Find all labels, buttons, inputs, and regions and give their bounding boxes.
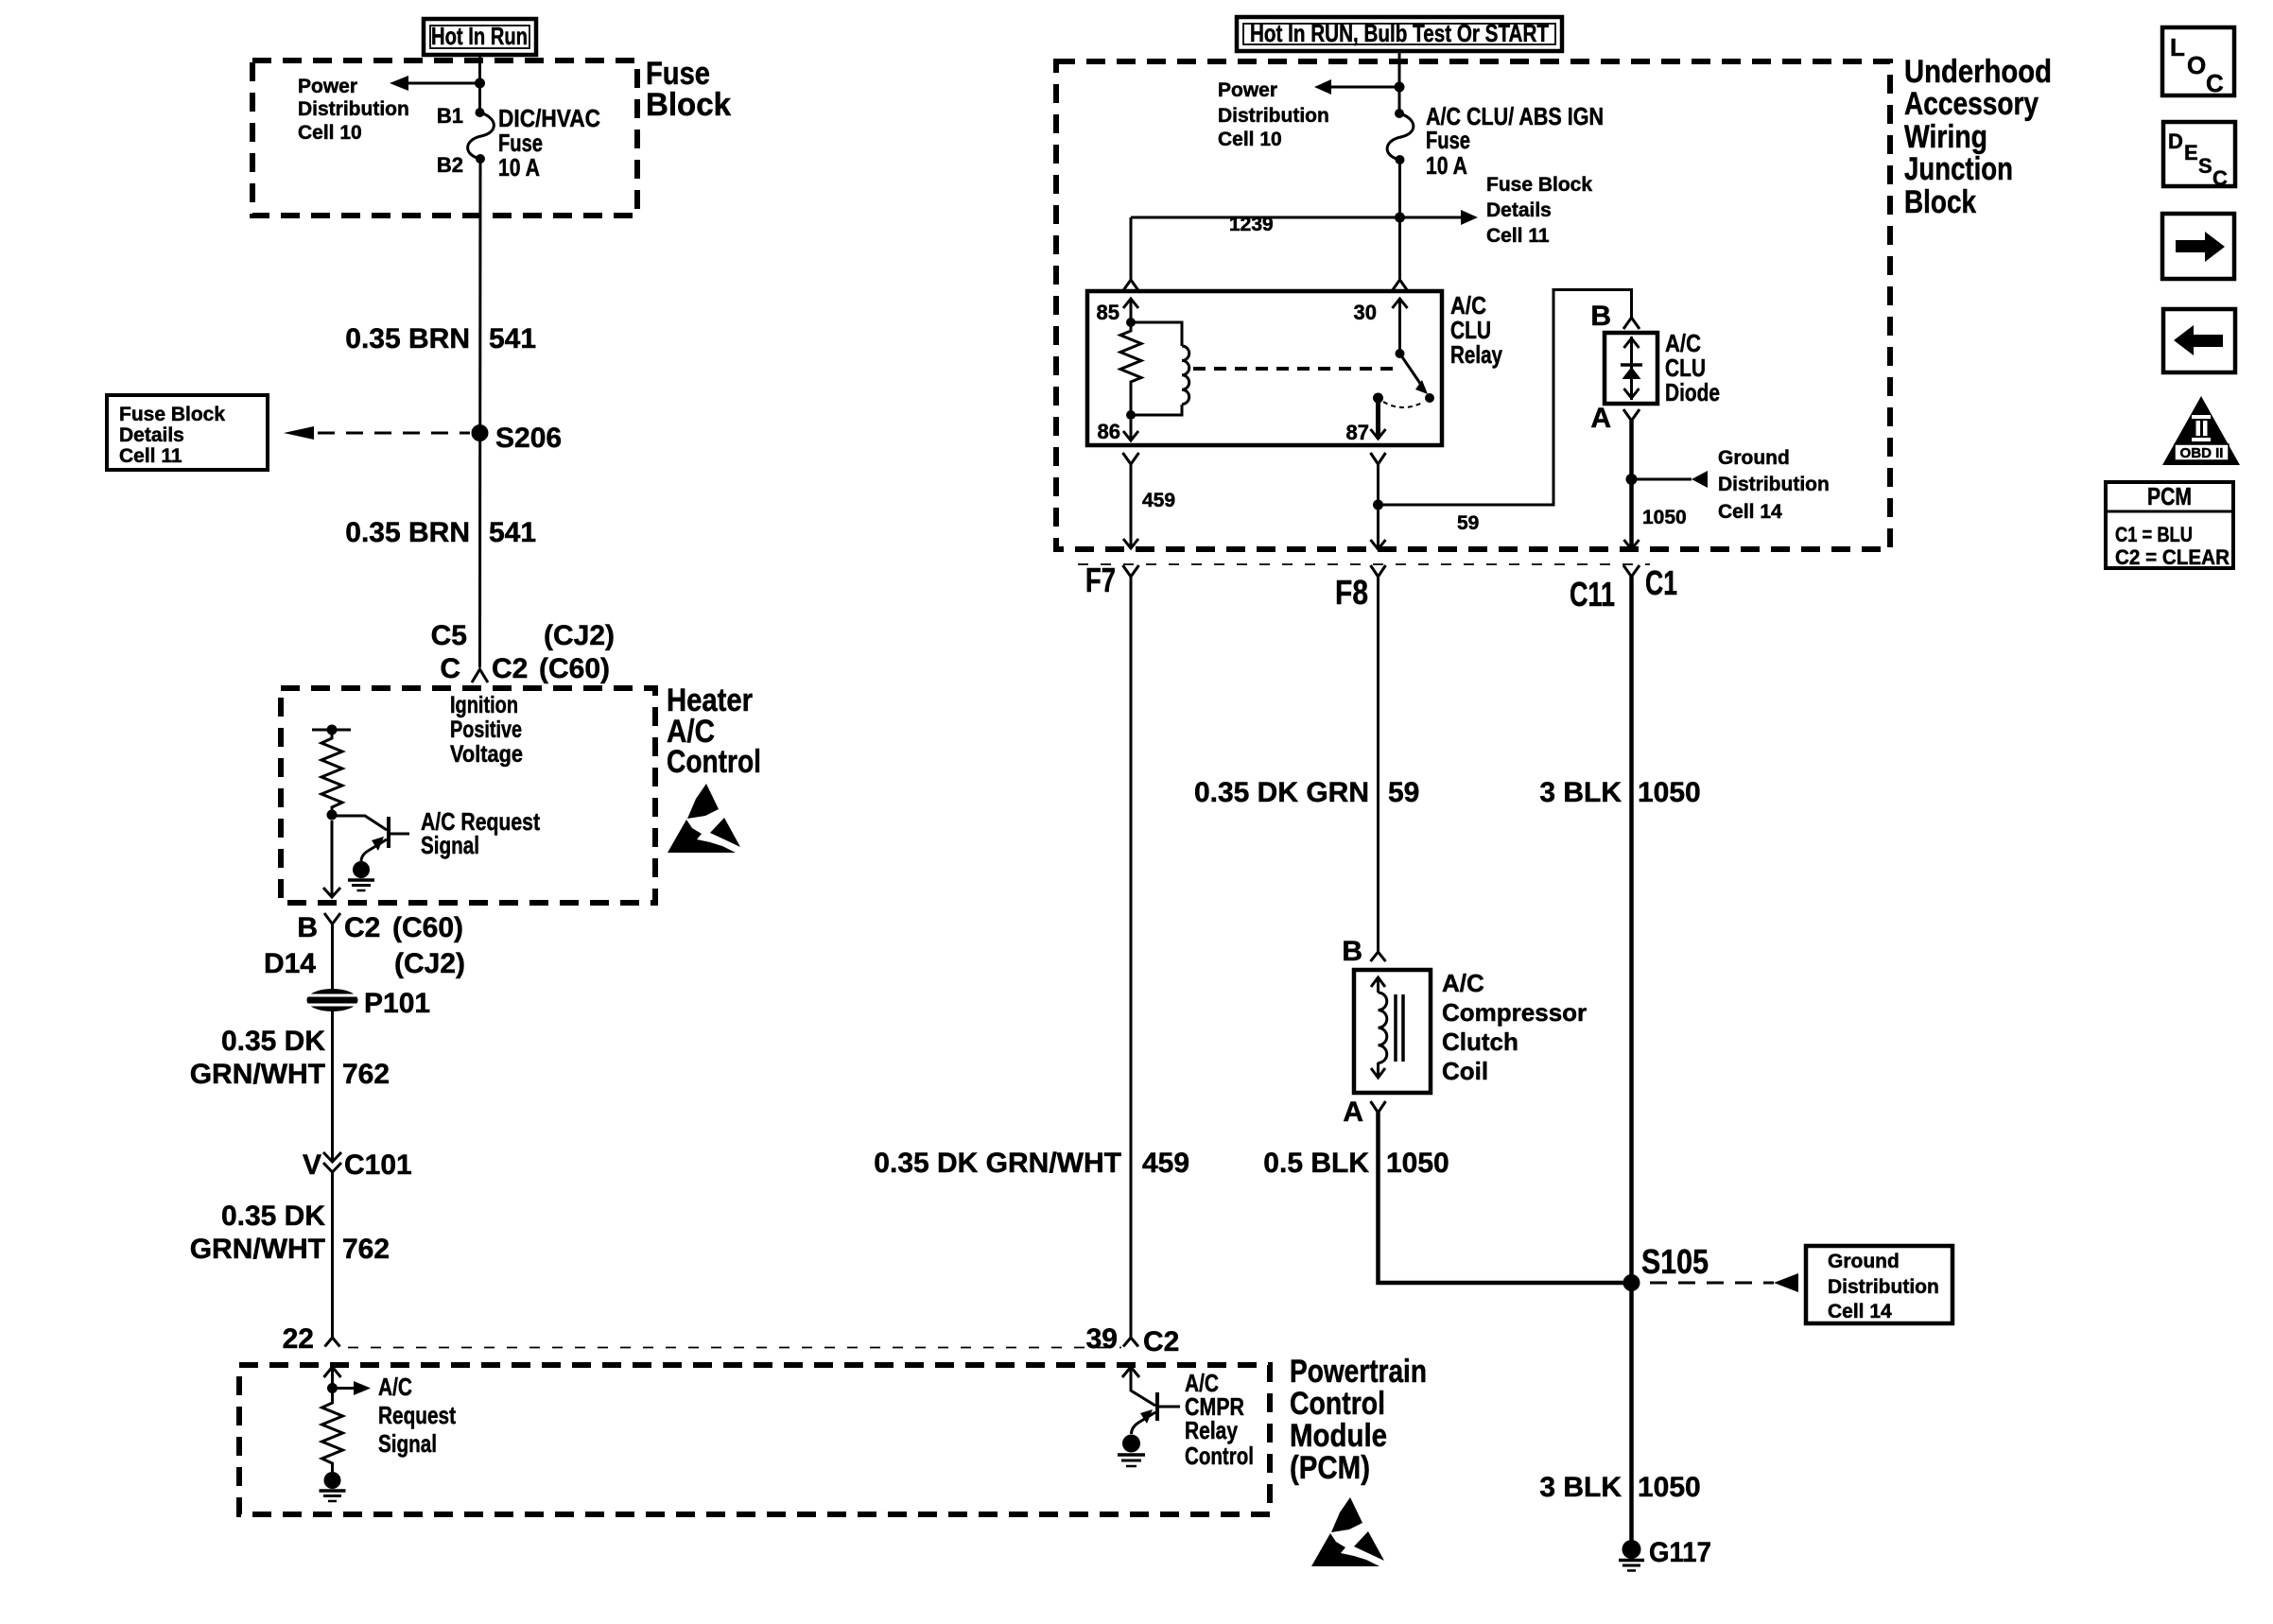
connector C11/C1 — [1623, 565, 1640, 577]
wire 0.5 BLK to splice S105 — [1379, 1113, 1632, 1283]
wire to connector B with arrow — [323, 821, 340, 897]
relay coil winding — [1131, 322, 1189, 415]
svg-text:Accessory: Accessory — [1904, 86, 2039, 122]
svg-text:762: 762 — [342, 1059, 390, 1090]
wire F8 to clutch coil — [1377, 577, 1379, 952]
svg-text:C: C — [2212, 166, 2228, 190]
wire arrow to power distribution right — [1314, 79, 1399, 95]
svg-text:Fuse Block: Fuse Block — [119, 404, 225, 425]
svg-text:3 BLK: 3 BLK — [1539, 1472, 1622, 1503]
wire arrow to power distribution — [390, 76, 480, 91]
svg-text:Fuse: Fuse — [1426, 126, 1470, 154]
ignition positive voltage label — [450, 692, 523, 768]
svg-text:S206: S206 — [495, 423, 562, 454]
svg-text:PCM: PCM — [2147, 482, 2192, 510]
fuse value label — [498, 104, 600, 181]
wire elbow down to relay pin 85 — [1130, 217, 1133, 280]
svg-text:O: O — [2187, 51, 2206, 79]
svg-text:86: 86 — [1098, 420, 1120, 443]
svg-text:0.35 BRN: 0.35 BRN — [345, 323, 470, 354]
svg-text:Power: Power — [1218, 79, 1277, 101]
fuse block header label — [646, 56, 731, 123]
svg-text:Power: Power — [298, 76, 357, 97]
svg-text:A: A — [1343, 1097, 1363, 1128]
svg-text:C2: C2 — [1143, 1326, 1179, 1357]
pull-up resistor heater — [321, 730, 342, 815]
connector coil pin A — [1371, 1101, 1386, 1113]
svg-text:Relay: Relay — [1450, 340, 1502, 369]
svg-text:1050: 1050 — [1638, 1472, 1701, 1503]
diode D A/C CLU box — [1605, 333, 1657, 404]
svg-text:Junction: Junction — [1904, 151, 2013, 187]
A/C request signal input inside PCM — [324, 1367, 372, 1399]
svg-text:OBD II: OBD II — [2180, 445, 2224, 461]
wire 459 inside junction block — [1123, 464, 1138, 548]
svg-text:Control: Control — [1290, 1386, 1385, 1422]
svg-text:87: 87 — [1346, 421, 1369, 444]
svg-text:Compressor: Compressor — [1442, 998, 1587, 1027]
relay pin 87 — [1371, 393, 1386, 440]
svg-text:30: 30 — [1354, 301, 1377, 324]
wire 1050 inside junction block — [1624, 421, 1709, 549]
connector symbol relay pin 85 — [1123, 280, 1139, 291]
ground PCM transistor — [1118, 1435, 1145, 1467]
wire 541 from fuse to connector C5 — [478, 159, 482, 667]
wire label 0.35 BRN 541 lower — [345, 517, 536, 548]
wire label 0.35 BRN 541 upper — [345, 323, 536, 354]
svg-text:B2: B2 — [437, 153, 463, 177]
PCM header label — [1290, 1354, 1427, 1486]
legend OBD II triangle — [2162, 396, 2240, 465]
svg-text:Relay: Relay — [1185, 1416, 1238, 1444]
svg-text:Distribution: Distribution — [1718, 474, 1830, 495]
A/C CLU diode label — [1665, 329, 1720, 406]
svg-text:1239: 1239 — [1229, 214, 1274, 235]
wire 59 inside junction block — [1371, 290, 1632, 550]
svg-text:Cell 11: Cell 11 — [1486, 225, 1550, 247]
connector C2 (C60) symbol — [472, 669, 488, 682]
node junction dot B+ — [475, 78, 485, 89]
heater A/C control dashed box — [281, 688, 655, 903]
svg-text:A/C: A/C — [1442, 969, 1484, 997]
connector pin 22 symbol — [325, 1338, 340, 1347]
svg-text:3 BLK: 3 BLK — [1539, 777, 1622, 808]
transistor Q2 A/C CMPR relay control — [1122, 1367, 1180, 1434]
node junction dot heater — [327, 810, 338, 821]
svg-text:Ground: Ground — [1718, 447, 1790, 469]
svg-text:B: B — [1342, 936, 1362, 967]
svg-text:(CJ2): (CJ2) — [394, 948, 465, 979]
svg-text:1050: 1050 — [1386, 1148, 1449, 1179]
dashed wire to splice S206 — [284, 426, 470, 440]
svg-text:Distribution: Distribution — [1828, 1276, 1939, 1298]
fuse value label right — [1426, 102, 1604, 180]
svg-text:GRN/WHT: GRN/WHT — [190, 1059, 325, 1090]
svg-text:C2: C2 — [492, 653, 528, 684]
svg-text:Cell 14: Cell 14 — [1828, 1301, 1892, 1322]
relay actuation dashed link — [1193, 367, 1393, 371]
svg-text:C2 = CLEAR: C2 = CLEAR — [2115, 545, 2230, 569]
svg-text:1050: 1050 — [1642, 507, 1687, 528]
relay switch common pin 30 — [1393, 299, 1435, 403]
svg-text:C11: C11 — [1570, 575, 1615, 613]
svg-text:39: 39 — [1086, 1323, 1118, 1355]
underhood junction block dashed box — [1056, 61, 1890, 549]
svg-text:Control: Control — [1185, 1442, 1254, 1470]
svg-text:85: 85 — [1097, 301, 1119, 324]
svg-text:Cell 10: Cell 10 — [1218, 129, 1282, 150]
splice S105 — [1623, 1274, 1640, 1291]
connector pin 39 symbol — [1123, 1338, 1138, 1347]
A/C CLU relay label — [1450, 291, 1502, 369]
svg-text:Request: Request — [378, 1401, 456, 1429]
wire label 3 BLK 1050 upper — [1539, 777, 1700, 808]
node junction dot 1239 — [1395, 213, 1405, 223]
svg-text:Powertrain: Powertrain — [1290, 1354, 1427, 1390]
relay pin 86 arrow — [1123, 410, 1138, 441]
clutch coil label — [1442, 969, 1587, 1085]
A/C compressor clutch coil box — [1354, 970, 1431, 1093]
svg-text:Block: Block — [1904, 184, 1976, 220]
svg-text:B1: B1 — [437, 104, 463, 128]
svg-text:0.35 DK: 0.35 DK — [221, 1201, 325, 1232]
fuse block details callout box — [107, 395, 268, 470]
svg-text:0.35 DK GRN: 0.35 DK GRN — [1194, 777, 1369, 808]
svg-text:22: 22 — [283, 1323, 314, 1355]
connector below relay pin 86 — [1123, 453, 1139, 464]
svg-text:459: 459 — [1142, 490, 1175, 511]
wire 1239 to fuse block details arrow — [1131, 210, 1478, 225]
relay K A/C CLU box — [1087, 291, 1442, 445]
wire from Hot In Run into fuse block — [478, 55, 481, 112]
connector symbol relay pin 30 — [1392, 280, 1408, 291]
resistor R pull-down PCM — [322, 1399, 343, 1472]
svg-text:C5: C5 — [431, 620, 467, 651]
svg-text:Block: Block — [646, 87, 731, 123]
wire from fuse to relay pin 30 — [1398, 160, 1401, 280]
connector F8 — [1371, 565, 1386, 577]
svg-text:(C60): (C60) — [539, 653, 610, 684]
svg-text:10 A: 10 A — [498, 153, 540, 181]
svg-text:S105: S105 — [1641, 1242, 1709, 1281]
fuse block dashed box — [252, 60, 637, 216]
svg-text:Hot In Run: Hot In Run — [431, 22, 528, 50]
svg-text:S: S — [2198, 154, 2212, 178]
svg-text:D: D — [2168, 130, 2183, 153]
underhood header label — [1904, 54, 2052, 220]
pass-through grommet P101 — [304, 989, 360, 1011]
A/C request signal label PCM — [378, 1373, 456, 1458]
svg-text:A/C: A/C — [378, 1373, 412, 1401]
ESD symbol heater — [668, 784, 740, 853]
svg-text:Signal: Signal — [421, 831, 479, 859]
svg-text:B: B — [1590, 301, 1611, 332]
svg-text:(C60): (C60) — [392, 912, 463, 943]
connector Y symbol below heater — [324, 913, 340, 924]
connector C5/C2 labels — [431, 620, 615, 684]
fuse F1 DIC/HVAC symbol — [468, 108, 495, 164]
fuse F2 A/C CLU ABS IGN symbol — [1387, 109, 1414, 164]
node Hot In Run label box — [424, 19, 536, 55]
dashed wire to ground distribution — [1650, 1273, 1798, 1292]
thin dashed connector line right — [1078, 563, 1650, 565]
ignition supply bar inside heater box — [312, 725, 351, 735]
power distribution label — [298, 76, 409, 144]
heater A/C control header — [667, 682, 761, 780]
wire label 3 BLK 1050 lower — [1539, 1472, 1700, 1503]
thin dashed connector line left — [348, 1347, 1121, 1349]
ESD symbol PCM — [1311, 1497, 1384, 1566]
ground PCM resistor — [320, 1472, 346, 1501]
svg-text:E: E — [2184, 141, 2198, 164]
svg-text:541: 541 — [489, 517, 536, 548]
svg-text:10 A: 10 A — [1426, 151, 1467, 180]
ground distribution callout box bottom — [1806, 1246, 1952, 1323]
svg-text:0.35 DK GRN/WHT: 0.35 DK GRN/WHT — [874, 1148, 1121, 1179]
svg-text:Ignition: Ignition — [450, 692, 518, 718]
svg-text:C101: C101 — [344, 1149, 412, 1181]
transistor Q1 A/C request — [332, 816, 409, 861]
connector diode pin A — [1623, 409, 1640, 421]
svg-text:Details: Details — [119, 424, 184, 446]
ground heater transistor — [348, 861, 374, 890]
connector F7 — [1123, 565, 1139, 577]
svg-text:D14: D14 — [264, 948, 316, 979]
relay pin 85 arrow — [1123, 299, 1138, 322]
svg-text:762: 762 — [342, 1234, 390, 1265]
svg-text:Signal: Signal — [378, 1429, 437, 1458]
wire label 0.35 DK GRN/WHT 762 lower — [190, 1201, 390, 1265]
svg-text:(PCM): (PCM) — [1290, 1450, 1370, 1486]
svg-text:Cell 10: Cell 10 — [298, 122, 362, 144]
svg-text:B: B — [297, 912, 318, 943]
svg-text:C2: C2 — [344, 912, 380, 943]
fuse block details label right — [1486, 174, 1592, 247]
A/C request signal label heater — [421, 807, 540, 859]
splice S206 — [472, 424, 489, 441]
svg-text:Positive: Positive — [450, 717, 522, 743]
wire label 0.35 DK GRN 59 — [1194, 777, 1419, 808]
connector diode pin B — [1623, 318, 1640, 329]
wire from Hot In RUN into junction block — [1398, 51, 1401, 113]
svg-text:Distribution: Distribution — [1218, 105, 1329, 127]
svg-text:A: A — [1590, 403, 1611, 434]
svg-text:Control: Control — [667, 744, 761, 780]
node junction dot right — [1395, 82, 1405, 93]
svg-text:Coil: Coil — [1442, 1057, 1488, 1085]
legend PCM connector colors box — [2106, 482, 2233, 569]
wire F7 to PCM pin 39 — [1130, 577, 1133, 1338]
power distribution label right — [1218, 79, 1329, 150]
svg-text:Wiring: Wiring — [1904, 119, 1987, 155]
connector C2 (C60) lower labels — [264, 912, 465, 979]
A/C CMPR relay control label — [1185, 1369, 1254, 1470]
wire from heater to PCM pin 22 — [331, 924, 334, 1339]
svg-text:0.35 BRN: 0.35 BRN — [345, 517, 470, 548]
wire label 0.5 BLK 1050 — [1263, 1148, 1449, 1179]
wire label 0.35 DK GRN/WHT 762 upper — [190, 1026, 390, 1090]
wire C1 ground run — [1629, 577, 1634, 1541]
svg-text:Module: Module — [1290, 1418, 1387, 1454]
svg-text:C1: C1 — [1645, 563, 1677, 602]
svg-text:Diode: Diode — [1665, 378, 1720, 406]
svg-text:Cell 14: Cell 14 — [1718, 501, 1782, 523]
svg-text:Hot In RUN, Bulb Test Or START: Hot In RUN, Bulb Test Or START — [1250, 19, 1549, 47]
connector C101 symbol — [323, 1152, 341, 1172]
svg-text:(CJ2): (CJ2) — [544, 620, 615, 651]
svg-text:59: 59 — [1388, 777, 1419, 808]
svg-text:C: C — [440, 653, 460, 684]
PCM dashed box — [239, 1365, 1270, 1514]
svg-text:L: L — [2170, 33, 2185, 61]
svg-text:Ground: Ground — [1828, 1251, 1900, 1272]
svg-text:459: 459 — [1142, 1148, 1189, 1179]
svg-text:Fuse Block: Fuse Block — [1486, 174, 1592, 196]
svg-text:Voltage: Voltage — [450, 741, 523, 768]
svg-text:0.5 BLK: 0.5 BLK — [1263, 1148, 1369, 1179]
svg-text:Cell 11: Cell 11 — [119, 445, 182, 467]
legend forward arrow box — [2162, 214, 2234, 279]
relay switch thrown dashed arc — [1383, 402, 1424, 407]
svg-text:541: 541 — [489, 323, 536, 354]
legend back arrow box — [2163, 309, 2235, 372]
svg-text:F8: F8 — [1335, 573, 1368, 612]
svg-text:0.35 DK: 0.35 DK — [221, 1026, 325, 1057]
legend LOC box — [2162, 27, 2234, 97]
svg-text:1050: 1050 — [1638, 777, 1701, 808]
svg-text:Details: Details — [1486, 199, 1552, 221]
svg-text:GRN/WHT: GRN/WHT — [190, 1234, 325, 1265]
legend DESC box — [2163, 122, 2235, 190]
svg-text:F7: F7 — [1085, 561, 1116, 599]
connector coil pin B — [1371, 952, 1386, 961]
svg-text:Clutch: Clutch — [1442, 1028, 1518, 1056]
svg-text:Distribution: Distribution — [298, 98, 409, 120]
svg-text:P101: P101 — [364, 988, 430, 1019]
ground G117 — [1619, 1540, 1644, 1571]
svg-text:G117: G117 — [1649, 1537, 1711, 1568]
relay coil resistor — [1120, 318, 1141, 415]
svg-text:59: 59 — [1457, 512, 1479, 534]
ground distribution label top — [1718, 447, 1830, 523]
node Hot In RUN label box — [1237, 17, 1562, 51]
svg-text:C: C — [2206, 69, 2224, 97]
connector below relay pin 87 — [1371, 453, 1386, 464]
svg-text:Underhood: Underhood — [1904, 54, 2052, 90]
wire label 0.35 DK GRN/WHT 459 — [874, 1148, 1189, 1179]
svg-text:V: V — [303, 1149, 321, 1181]
svg-text:C1 = BLU: C1 = BLU — [2115, 523, 2193, 546]
